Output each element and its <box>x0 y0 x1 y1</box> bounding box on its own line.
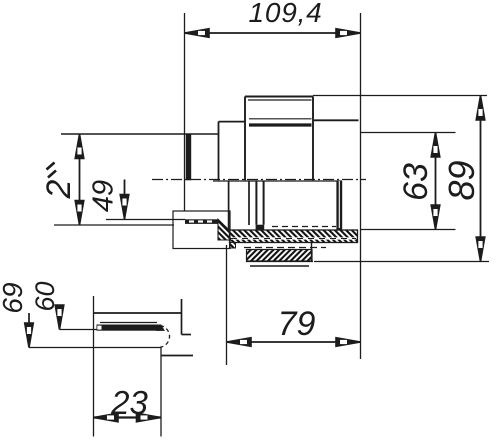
svg-text:23: 23 <box>110 384 148 421</box>
svg-text:60: 60 <box>30 281 60 311</box>
svg-text:63: 63 <box>397 163 435 201</box>
svg-text:49: 49 <box>88 180 120 212</box>
svg-text:109,4: 109,4 <box>248 0 322 28</box>
svg-text:2: 2 <box>40 179 78 199</box>
svg-text:89: 89 <box>441 160 482 200</box>
svg-text:79: 79 <box>278 305 316 343</box>
svg-text:69: 69 <box>0 282 28 313</box>
